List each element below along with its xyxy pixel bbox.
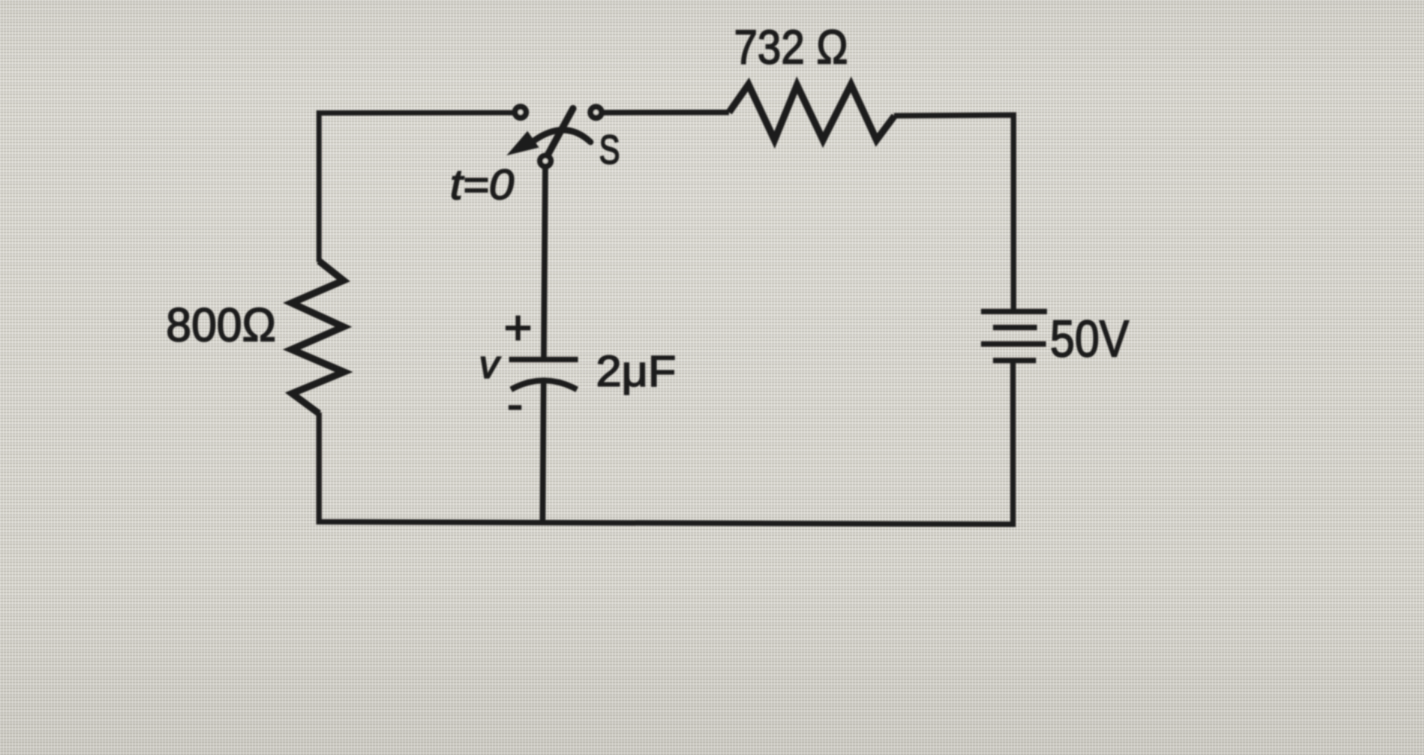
svg-text:2μF: 2μF xyxy=(596,347,676,396)
svg-text:732 Ω: 732 Ω xyxy=(734,22,848,75)
svg-text:800Ω: 800Ω xyxy=(166,298,276,351)
svg-text:50V: 50V xyxy=(1050,311,1129,369)
svg-text:v: v xyxy=(479,343,501,387)
svg-text:t=0: t=0 xyxy=(450,161,514,209)
svg-text:S: S xyxy=(599,127,620,173)
